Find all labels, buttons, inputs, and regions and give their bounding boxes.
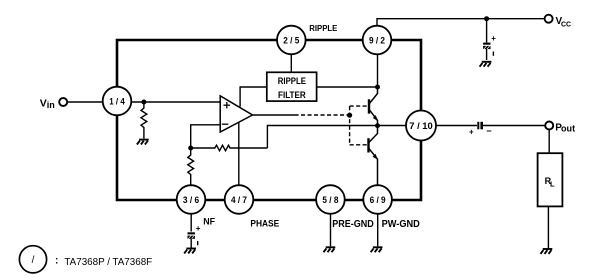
node A junction on input [141,100,146,105]
legend circle [19,246,46,273]
svg-text::: : [55,256,58,267]
wire op-amp top to ripple filter [240,87,267,107]
wire op-amp inverting input feedback [191,125,221,148]
wire pin1/4 to op-amp + input [131,101,220,103]
node F output junction [375,123,380,128]
svg-text:PRE-GND: PRE-GND [332,219,374,230]
node D Vcc cap junction [484,16,489,21]
svg-text:+: + [196,224,201,233]
svg-text:7 / 10: 7 / 10 [409,121,433,132]
svg-text:RIPPLE: RIPPLE [278,75,306,86]
resistor RL box [538,153,563,206]
ripple filter box [267,72,317,101]
wire phase pin 4/7 to op-amp [238,122,240,185]
svg-text:PW-GND: PW-GND [382,219,420,230]
terminal Vcc [545,15,553,23]
resistor R2 NF (vertical) [188,148,194,185]
ground (Vcc cap) [480,62,492,67]
capacitor C3 (NF, polarized) [188,224,201,246]
wire dashed to Q1 base [350,105,369,107]
wire pin 2/5 to ripple filter [290,54,292,72]
resistor R3 feedback (horizontal) [191,145,268,151]
svg-text:−: − [486,126,491,136]
wire 3/6 to NF cap [190,214,192,232]
svg-text:5 / 8: 5 / 8 [322,195,339,206]
svg-text:+: + [469,127,474,136]
svg-text:6 / 9: 6 / 9 [370,195,386,206]
node B feedback junction [188,146,193,151]
svg-text:9 / 2: 9 / 2 [369,36,385,47]
svg-text:CC: CC [561,19,572,28]
pin 5/8 [316,185,345,214]
pin 4/7 [225,185,254,214]
capacitor C1 (Vcc bypass, polarized) [483,34,496,56]
wire op-amp output dashed to driver [295,114,351,116]
svg-text:2 / 5: 2 / 5 [283,36,300,47]
svg-text:NF: NF [203,217,215,227]
wire feedback to output node [267,126,406,149]
wire RL to ground [547,206,549,248]
pin 3/6 [177,185,206,214]
wire Pout down to RL [548,130,550,154]
wire 6/9 to ground [377,214,379,247]
wire junction to C1 [486,19,488,43]
svg-text:/: / [32,255,35,266]
capacitor C2 (output coupling, polarized) [469,122,492,137]
terminal Vin [59,98,67,106]
wire pin 9/2 down to collector [377,54,379,87]
node E dashed junction [347,113,352,118]
ground (RL) [541,249,553,254]
ground (PRE-GND) [324,247,336,252]
svg-text:FILTER: FILTER [278,89,306,100]
svg-text:RIPPLE: RIPPLE [309,24,338,33]
node C collector junction [375,85,380,90]
svg-text:+: + [491,34,496,43]
svg-text:in: in [47,100,55,110]
pin 1/4 [103,87,132,116]
svg-text:1 / 4: 1 / 4 [109,97,125,108]
svg-text:3 / 6: 3 / 6 [183,195,199,206]
wire pin 9/2 up to Vcc rail [377,19,545,26]
wire dashed to Q2 base [350,144,368,146]
wire Vin to pin 1/4 [68,101,104,103]
op-amp - symbol [222,123,229,125]
wire op-amp output (solid stub) [253,114,295,116]
ground (PW-GND) [371,247,383,252]
wire cap to Pout [483,125,545,127]
transistor Q1 (upper NPN) [369,87,378,126]
svg-text:V: V [40,98,47,110]
wire C3 to ground [190,239,192,249]
svg-text:4 / 7: 4 / 7 [231,195,247,206]
transistor Q2 (lower NPN) [369,126,378,186]
pin 2/5 [277,26,306,55]
svg-text:TA7368P / TA7368F: TA7368P / TA7368F [64,257,152,268]
pin 6/9 [363,185,392,214]
svg-text:L: L [550,180,555,189]
op-amp U2 [220,96,252,132]
op-amp + symbol [224,102,231,109]
resistor R1 input bias [141,102,147,139]
svg-text:PHASE: PHASE [250,219,279,230]
pin 7/10 [406,111,436,141]
svg-text:out: out [561,124,575,134]
ground (input resistor) [137,140,149,145]
wire ripple filter to transistor collector node [317,86,378,88]
pin 9/2 [363,26,392,55]
IC boundary box U1 [117,40,421,200]
ground (NF cap) [184,249,196,254]
wire C1 to ground [486,49,488,60]
wire dashed bracket vertical [349,106,351,145]
wire output line through 7/10 to cap [436,125,477,127]
terminal Pout [545,122,553,130]
wire 5/8 to ground [330,214,332,247]
